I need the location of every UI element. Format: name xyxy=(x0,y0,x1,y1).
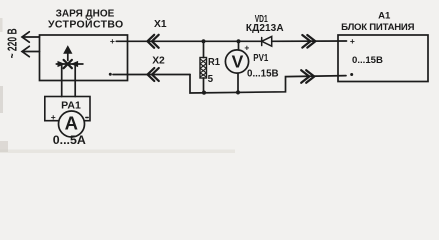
junction dot R1 top xyxy=(201,39,205,43)
scan smudge bottom edge xyxy=(0,150,235,154)
mains wire 2 xyxy=(23,51,40,53)
svg-text:БЛОК ПИТАНИЯ: БЛОК ПИТАНИЯ xyxy=(341,22,414,33)
connector X1 xyxy=(147,35,158,48)
plug arrow 1 xyxy=(22,32,29,42)
svg-text:0...5A: 0...5A xyxy=(53,135,86,147)
connector X2 xyxy=(148,68,159,81)
bottom wire: bend down xyxy=(190,75,346,94)
svg-text:УСТРОЙСТВО: УСТРОЙСТВО xyxy=(48,18,124,31)
ammeter PA1 xyxy=(59,111,85,137)
svg-text:R1: R1 xyxy=(208,56,220,68)
svg-text:А: А xyxy=(65,112,78,133)
svg-text:+: + xyxy=(110,36,115,46)
resistor R1 wires xyxy=(203,41,205,57)
label: ЗАРЯДНОЕ УСТРОЙСТВО xyxy=(48,9,124,31)
resistor R1 hatch xyxy=(200,59,206,77)
svg-text:0...15В: 0...15В xyxy=(247,69,279,80)
mains wire 1 xyxy=(23,36,40,38)
minus dot charging box xyxy=(109,73,112,76)
scan smudge left edge upper xyxy=(0,18,3,32)
svg-text:+: + xyxy=(244,42,249,52)
plug arrow 2 xyxy=(22,46,29,56)
voltmeter PV1 wires xyxy=(238,41,240,50)
svg-text:X1: X1 xyxy=(154,19,167,30)
junction dot R1 bottom xyxy=(202,91,206,95)
junction dot PV1 top xyxy=(236,39,240,43)
voltmeter PV1 xyxy=(225,50,248,73)
wire to ammeter left xyxy=(61,64,63,97)
svg-text:5: 5 xyxy=(208,74,214,85)
top wire: box to diode xyxy=(116,40,261,42)
svg-text:V: V xyxy=(232,52,244,72)
svg-text:КД213А: КД213А xyxy=(246,23,284,34)
ammeter PA1 box xyxy=(45,97,90,121)
power supply box A1 xyxy=(338,35,428,82)
bottom wire: box to bend xyxy=(113,74,190,76)
svg-text:A1: A1 xyxy=(378,10,391,21)
top wire: diode to power box xyxy=(272,40,347,42)
svg-text:+: + xyxy=(51,112,56,122)
wire to ammeter right xyxy=(74,64,76,97)
svg-text:+: + xyxy=(350,36,355,46)
scan smudge bottom-left corner xyxy=(0,141,8,152)
charging device box xyxy=(40,35,128,81)
svg-text:~ 220 В: ~ 220 В xyxy=(5,28,20,58)
connector arrow right top xyxy=(302,35,315,48)
resistor R1 xyxy=(200,58,207,79)
svg-text:PA1: PA1 xyxy=(61,99,81,111)
junction dot PV1 bottom xyxy=(236,90,240,94)
diode VD1 xyxy=(262,36,272,46)
scan smudge left edge xyxy=(0,86,3,113)
connector arrow right bottom xyxy=(301,70,314,83)
svg-text:0...15В: 0...15В xyxy=(352,55,383,66)
svg-text:X2: X2 xyxy=(152,56,165,67)
minus mark PA1 xyxy=(86,117,88,119)
minus dot power box xyxy=(350,73,353,76)
ammeter insertion point symbol xyxy=(56,46,83,68)
svg-text:PV1: PV1 xyxy=(253,53,268,64)
